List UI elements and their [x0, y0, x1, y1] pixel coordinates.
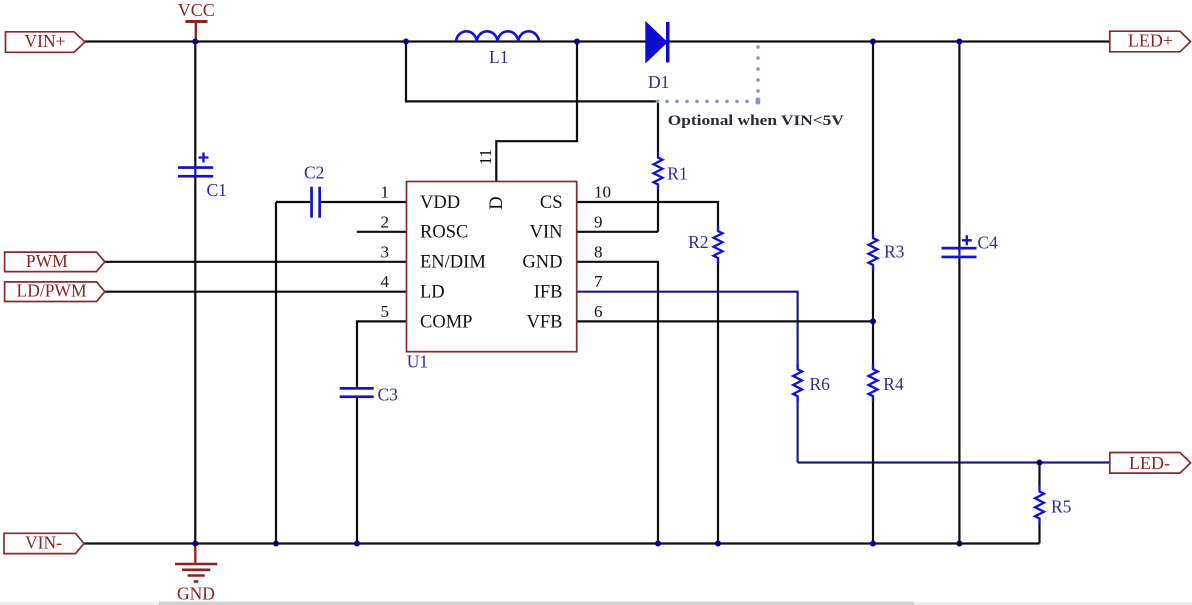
- svg-text:1: 1: [381, 183, 390, 202]
- port PWM: [5, 251, 105, 272]
- diode D1: [646, 22, 670, 63]
- inductor L1: [456, 31, 539, 41]
- wire R3 bottom to R4 top through VFB node: [872, 268, 874, 368]
- svg-text:LD: LD: [420, 283, 445, 303]
- wire IFB row pin 7 to R6 (blue net): [577, 292, 798, 368]
- svg-text:5: 5: [381, 302, 390, 321]
- svg-text:8: 8: [594, 242, 603, 261]
- wire C4 branch: [958, 42, 960, 544]
- port LED-: [1110, 453, 1191, 474]
- svg-text:R1: R1: [667, 164, 687, 184]
- wire GND row pin 8 to rail: [577, 262, 658, 544]
- wire EN/DIM row pin 3 from PWM: [105, 261, 407, 263]
- svg-text:C1: C1: [207, 180, 227, 200]
- svg-text:D1: D1: [648, 72, 669, 92]
- junction node rail C4: [956, 541, 962, 547]
- wire VIN row pin 9: [577, 231, 658, 233]
- junction node L1 right: [574, 39, 580, 45]
- svg-text:LED-: LED-: [1129, 453, 1170, 473]
- junction node C4 top: [956, 39, 962, 45]
- svg-text:R2: R2: [688, 232, 708, 252]
- svg-text:VCC: VCC: [178, 0, 215, 20]
- svg-text:R6: R6: [810, 374, 831, 394]
- wire bottom ground rail: [84, 542, 1040, 544]
- wire R6 bottom to LED- line: [796, 397, 798, 463]
- svg-text:GND: GND: [177, 583, 215, 603]
- junction node LED- R5: [1037, 460, 1043, 466]
- port LED+: [1110, 30, 1191, 52]
- svg-text:R3: R3: [884, 242, 905, 262]
- svg-text:VIN-: VIN-: [25, 533, 62, 553]
- svg-text:CS: CS: [540, 193, 563, 213]
- svg-text:VFB: VFB: [527, 312, 563, 332]
- svg-text:U1: U1: [407, 352, 428, 372]
- wire R5 bottom to rail: [1038, 523, 1040, 544]
- svg-text:L1: L1: [489, 47, 508, 67]
- svg-text:D: D: [487, 196, 507, 209]
- svg-text:3: 3: [381, 242, 390, 261]
- svg-text:9: 9: [594, 212, 603, 231]
- wire VFB row pin 6 to R3/R4 node: [577, 320, 873, 322]
- resistor R6: [793, 364, 802, 402]
- wire L1 left node down and bypass to R1: [406, 42, 658, 153]
- wire LED- line: [798, 461, 1110, 463]
- capacitor C1 polarized: [178, 153, 213, 178]
- wire CS row pin 10 to R2 top: [577, 202, 718, 228]
- capacitor C2 series: [310, 187, 321, 218]
- resistor R2: [714, 226, 723, 264]
- ground symbol GND: [175, 544, 217, 582]
- svg-text:7: 7: [594, 272, 603, 291]
- svg-text:LED+: LED+: [1128, 30, 1173, 50]
- capacitor C4 polarized: [942, 235, 977, 258]
- junction node rail R2: [715, 541, 721, 547]
- svg-text:6: 6: [594, 302, 603, 321]
- svg-text:EN/DIM: EN/DIM: [420, 253, 486, 273]
- junction node VCC top: [192, 39, 198, 45]
- port VIN-: [4, 533, 84, 554]
- wire R4 bottom to rail: [872, 397, 874, 544]
- svg-text:C4: C4: [978, 233, 999, 253]
- junction node rail R4: [870, 541, 876, 547]
- svg-text:Optional when VIN<5V: Optional when VIN<5V: [668, 113, 845, 129]
- capacitor C3: [340, 387, 374, 398]
- svg-text:VIN+: VIN+: [25, 31, 66, 51]
- wire vertical VCC/C1 branch: [194, 42, 196, 544]
- svg-text:VIN: VIN: [530, 223, 563, 243]
- svg-text:C3: C3: [378, 385, 399, 405]
- wire L1 right node down to pin 11 jog: [496, 42, 577, 182]
- resistor R1: [654, 152, 663, 190]
- svg-text:C2: C2: [304, 163, 324, 183]
- junction node rail pin8: [655, 541, 661, 547]
- svg-text:COMP: COMP: [420, 312, 472, 332]
- svg-text:4: 4: [381, 272, 390, 291]
- wire R2 bottom to ground rail: [717, 258, 719, 544]
- wire top rail VIN+ to LED+: [85, 40, 1110, 42]
- svg-text:11: 11: [476, 149, 495, 165]
- junction node rail C3: [354, 541, 360, 547]
- svg-text:PWM: PWM: [26, 251, 68, 271]
- wire R5 branch from LED- line: [1038, 463, 1040, 488]
- resistor R4: [869, 364, 878, 402]
- svg-text:IFB: IFB: [534, 283, 563, 303]
- svg-text:GND: GND: [522, 253, 562, 273]
- port VIN+: [6, 31, 86, 53]
- wire COMP row pin 5 through C3 to rail: [357, 321, 407, 543]
- wire VDD row pin 1 with C2 branch down: [276, 202, 407, 544]
- junction node L1 left: [403, 39, 409, 45]
- svg-text:2: 2: [381, 212, 390, 231]
- svg-text:LD/PWM: LD/PWM: [17, 281, 87, 301]
- optional dotted net: [656, 45, 760, 104]
- port LD/PWM: [5, 281, 105, 302]
- wire R1 bottom to VIN pin row: [657, 190, 659, 232]
- wire LD row pin 4 from LD/PWM: [105, 291, 407, 293]
- svg-text:R5: R5: [1051, 496, 1072, 516]
- junction node R3 top: [870, 39, 876, 45]
- svg-text:VDD: VDD: [420, 193, 460, 213]
- wire R3 branch from top rail: [872, 42, 874, 235]
- VCC power symbol: [186, 22, 208, 42]
- svg-text:10: 10: [594, 183, 611, 202]
- svg-text:ROSC: ROSC: [420, 223, 468, 243]
- op-amp U1 IC body: [407, 182, 577, 352]
- resistor R3: [869, 233, 878, 271]
- junction node VFB: [870, 318, 876, 324]
- wire ROSC stub pin 2: [357, 231, 407, 233]
- svg-text:R4: R4: [883, 374, 904, 394]
- bottom gray band: [0, 602, 1192, 605]
- junction node rail C2: [273, 541, 279, 547]
- resistor R5: [1035, 486, 1044, 524]
- junction node rail C1: [192, 541, 198, 547]
